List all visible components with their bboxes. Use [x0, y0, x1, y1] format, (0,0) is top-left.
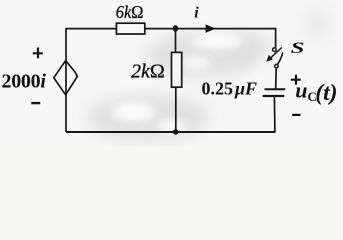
svg-text:6kΩ: 6kΩ — [116, 2, 144, 22]
svg-text:S: S — [291, 40, 305, 56]
label uc(t) capacitor voltage — [295, 78, 337, 107]
label S — [291, 40, 305, 56]
switch S: actuation arrow line — [270, 48, 282, 59]
switch S: bottom terminal circle — [275, 64, 279, 68]
wire: left side vertical — [65, 28, 67, 132]
wire: right side from capacitor to bottom corner — [273, 96, 276, 132]
svg-text:i: i — [194, 5, 199, 22]
label 0.25µF — [202, 78, 258, 98]
wire: right side from switch to capacitor — [275, 68, 278, 89]
wire: lead from top node down to 2k resistor — [175, 28, 177, 52]
polarity + of dependent source — [33, 48, 43, 59]
resistor 2kΩ body — [172, 52, 182, 87]
capacitor C: bottom plate — [263, 95, 285, 97]
svg-text:0.25μF: 0.25μF — [202, 78, 258, 98]
capacitor C: top plate — [265, 88, 286, 90]
node: top junction dot — [173, 25, 178, 32]
label i (current) — [194, 5, 199, 22]
wire: top side middle segment with junction to right corner — [145, 28, 276, 30]
node: bottom junction dot — [173, 129, 179, 134]
label 2kΩ — [131, 61, 165, 83]
dependent source diamond (2000i controlled source) — [54, 61, 78, 95]
polarity - of dependent source — [31, 102, 40, 104]
svg-text:u: u — [295, 78, 307, 103]
switch S: top terminal circle — [273, 48, 277, 52]
svg-text:2000i: 2000i — [2, 71, 47, 93]
svg-text:2kΩ: 2kΩ — [131, 61, 165, 83]
switch S: actuation arrow head — [266, 55, 273, 62]
wire: bottom side — [66, 131, 275, 133]
switch S: blade — [278, 52, 283, 64]
svg-text:(t): (t) — [315, 80, 337, 106]
label 2000i — [2, 71, 47, 93]
polarity + of capacitor voltage — [291, 75, 301, 85]
wire: lead from 2k resistor down to bottom node — [175, 87, 177, 132]
resistor 6kΩ body — [116, 23, 144, 34]
current arrow i — [206, 24, 216, 32]
label 6kΩ — [116, 2, 144, 22]
polarity - of capacitor voltage — [292, 114, 300, 116]
wire: top side left segment — [66, 28, 116, 30]
wire: right side upper (corner down to switch) — [275, 28, 277, 48]
